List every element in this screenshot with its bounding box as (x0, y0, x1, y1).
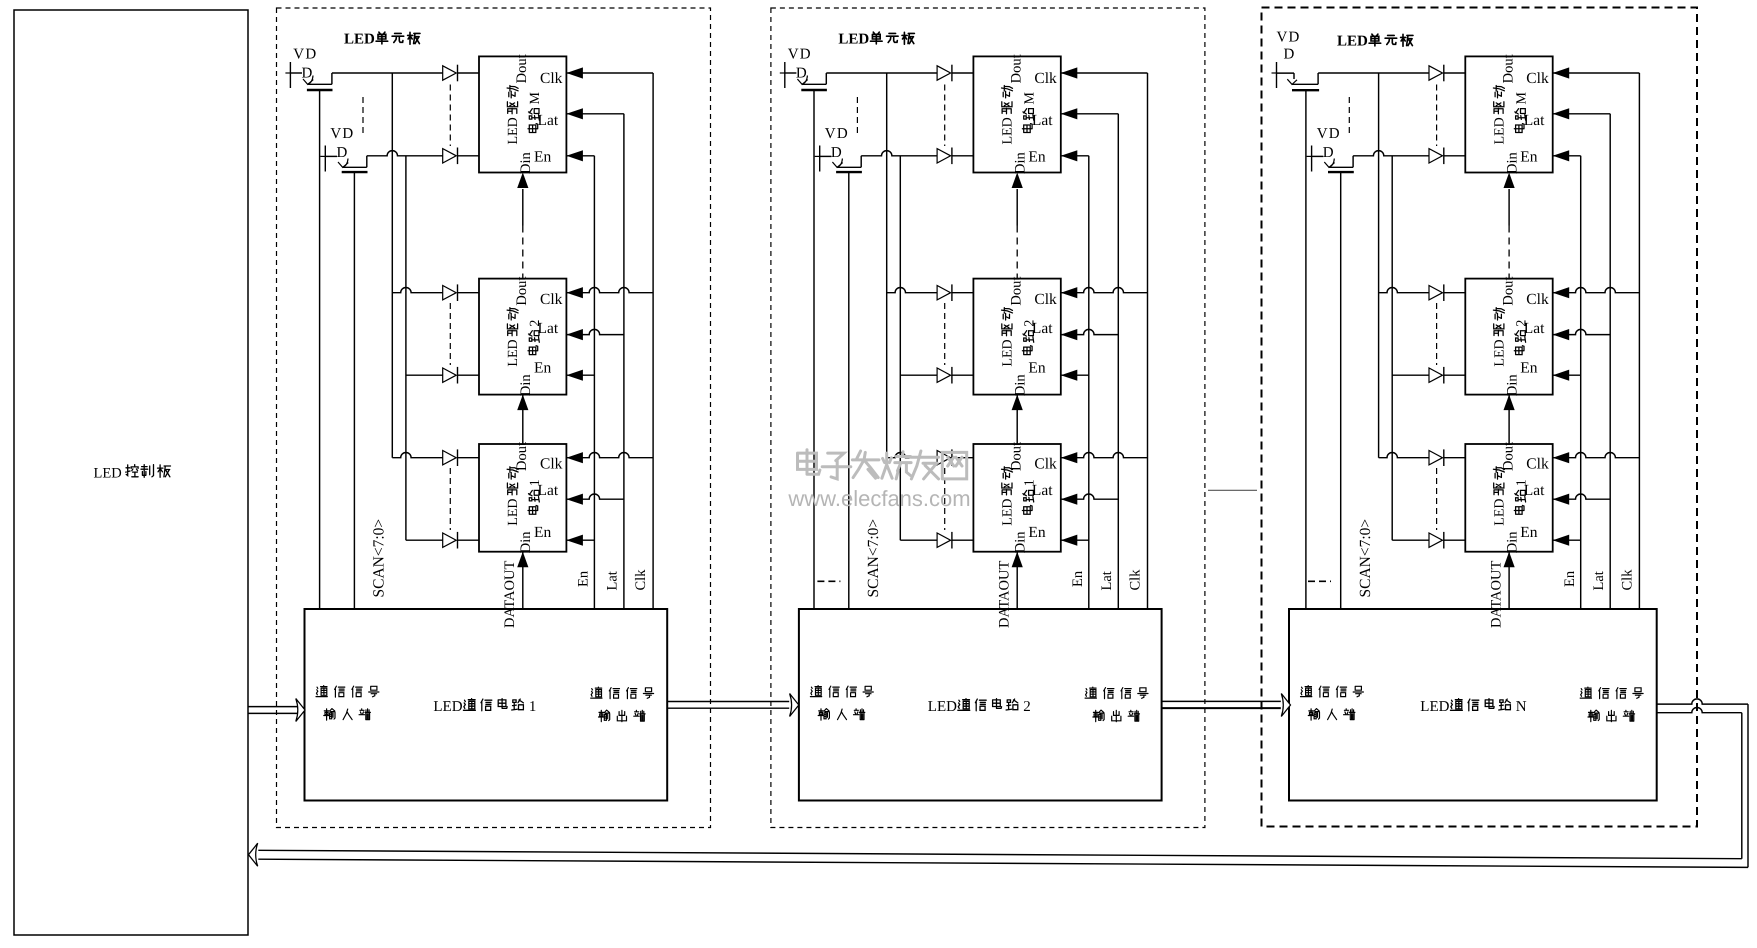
wire+arrow: Clk into UM (panel N) (1553, 72, 1640, 74)
svg-text:Lat: Lat (1524, 482, 1545, 499)
label 通信信号/输入端 (panel N) (1301, 686, 1364, 698)
wire+arrow: Clk into UM (panel 1) (566, 72, 653, 74)
svg-text:DATAOUT: DATAOUT (1488, 561, 1504, 628)
title LED单元板 (panel 2) (838, 32, 914, 48)
svg-text:LED: LED (1337, 34, 1368, 50)
svg-text:LED: LED (928, 699, 957, 715)
diode D4 (panel 2) (937, 368, 951, 382)
wire: En bus vertical (panel 2) (1088, 156, 1090, 609)
svg-text:En: En (1520, 360, 1537, 377)
wire: LED row 1 (Clk row of U-M) (panel N) (1318, 72, 1429, 74)
diode D4 (panel N) (1429, 368, 1443, 382)
svg-text:Din: Din (1012, 531, 1028, 554)
svg-text:LED: LED (94, 466, 122, 482)
wire+arrow: En into UM (panel N) (1553, 155, 1581, 157)
svg-text:LED: LED (1420, 699, 1449, 715)
svg-text:VD: VD (330, 126, 354, 142)
wire: LED row 3 (Clk row of U2) (panel 1) (392, 288, 442, 293)
label LED驱动 rotated (U1 panel 2) (1000, 467, 1015, 526)
diode D5 (panel 1) (443, 451, 457, 465)
svg-text:Lat: Lat (1032, 320, 1053, 337)
transistor Q1 (scan MOSFET VD, panel 1) (285, 47, 332, 90)
svg-text:Clk: Clk (1526, 70, 1549, 87)
diode D6 (panel 1) (443, 533, 457, 547)
svg-text:En: En (1520, 149, 1537, 166)
svg-text:En: En (534, 149, 551, 166)
svg-text:VD: VD (1277, 30, 1301, 46)
wire: diode to driver (panel 2) (952, 457, 974, 459)
svg-text:SCAN<7:0>: SCAN<7:0> (1357, 519, 1374, 598)
wire: LED row 3 (Clk row of U2) (panel N) (1379, 288, 1429, 293)
svg-text:En: En (1028, 524, 1045, 541)
diode D6 (panel N) (1429, 533, 1443, 547)
wire: diode to driver (panel 2) (952, 539, 974, 541)
wire: Q1 drain column down to comm circuit (panel 2) (813, 91, 815, 609)
title LED单元板 (panel 1) (344, 32, 420, 48)
LED unit board panel N dashed border (1262, 8, 1698, 827)
svg-text:VD: VD (293, 47, 317, 63)
svg-text:LED: LED (506, 498, 521, 525)
label LED通信电路2 (panel 2) (928, 699, 1031, 715)
wire+arrow: Lat into U2 (panel N) (1553, 329, 1611, 334)
wire: Clk bus vertical (panel 2) (1147, 73, 1149, 609)
diode D2 (panel N) (1429, 149, 1443, 163)
ellipsis line between panel 2 and panel N (1208, 489, 1257, 491)
wire: LED row 6 (En row of U1) (panel N) (1392, 539, 1429, 541)
wire+arrow: Lat into U2 (panel 2) (1061, 329, 1119, 334)
wire+arrow: DATAOUT from comm circuit up to U1 Din (panel 2) (1016, 552, 1018, 609)
svg-text:Din: Din (1012, 152, 1028, 175)
svg-text:En: En (1028, 360, 1045, 377)
wire: Q1 drain column down to comm circuit (panel N) (1305, 91, 1307, 609)
svg-text:Lat: Lat (538, 320, 559, 337)
wire+arrow: Clk into UM (panel 2) (1061, 72, 1148, 74)
transistor Q2 (scan MOSFET VD, panel 1) (320, 126, 367, 172)
wire: diode to driver (panel 1) (458, 292, 480, 294)
wire+arrow: Clk into U1 (panel N) (1553, 452, 1640, 457)
wire+arrow: En into UM (panel 1) (566, 155, 594, 157)
dashed mark between diode pair rows 5-6 (panel 1) (449, 468, 451, 530)
wire: return path bottom double line back to control board (258, 859, 1748, 867)
svg-text:Lat: Lat (1524, 320, 1545, 337)
wire: scan line B vertical (panel 1) (405, 156, 407, 540)
svg-text:LED: LED (1492, 498, 1507, 525)
wire: LED row 2 (En row of U-M) (panel N) (1353, 151, 1429, 156)
svg-text:Dout: Dout (514, 277, 530, 306)
svg-text:Lat: Lat (1099, 571, 1115, 590)
wire+arrow: Lat into U1 (panel 2) (1061, 494, 1119, 499)
LED control board box (LED控制板) (14, 10, 248, 935)
svg-text:Clk: Clk (1034, 70, 1057, 87)
wire: diode to driver (panel 1) (458, 374, 480, 376)
label 电路M rotated (UM panel 2) (1022, 92, 1037, 133)
svg-text:LED: LED (1000, 498, 1015, 525)
svg-text:Clk: Clk (633, 569, 649, 591)
svg-text:LED: LED (506, 339, 521, 366)
wire+arrow: En into U1 (panel 2) (1061, 539, 1089, 541)
wire: LED row 1 (Clk row of U-M) (panel 2) (826, 72, 937, 74)
wire: scan line A vertical (panel N) (1378, 73, 1380, 458)
svg-text:Din: Din (518, 531, 534, 554)
svg-text:Lat: Lat (538, 482, 559, 499)
svg-text:Clk: Clk (540, 70, 563, 87)
watermark 电子发烧友网 (798, 450, 967, 479)
svg-text:LED: LED (1492, 339, 1507, 366)
svg-text:D: D (831, 145, 842, 161)
wire: diode to driver (panel 2) (952, 292, 974, 294)
wire: diode to driver (panel N) (1444, 72, 1466, 74)
svg-text:1: 1 (529, 699, 537, 715)
svg-text:En: En (1028, 149, 1045, 166)
diode D2 (panel 1) (443, 149, 457, 163)
wire: comm circuit N output with hops over panel border (1657, 699, 1748, 704)
wire+arrow: Clk into U2 (panel N) (1553, 288, 1640, 293)
dashed mark between diode pair rows 5-6 (panel 2) (944, 468, 946, 530)
svg-text:Clk: Clk (1619, 569, 1635, 591)
label 电路1 rotated (U1 panel N) (1514, 479, 1529, 514)
svg-text:N: N (1516, 699, 1527, 715)
svg-text:En: En (576, 570, 592, 587)
wire: scan line A vertical (panel 2) (886, 73, 888, 458)
svg-text:Clk: Clk (1526, 291, 1549, 308)
wire: LED row 5 (Clk row of U1) (panel 2) (887, 452, 937, 457)
wire: scan line B vertical (panel N) (1391, 156, 1393, 540)
svg-text:Lat: Lat (1032, 482, 1053, 499)
svg-text:Lat: Lat (1524, 112, 1545, 129)
wire+arrow: Clk into U1 (panel 1) (566, 453, 653, 458)
svg-text:En: En (534, 360, 551, 377)
LED communication circuit N box (LED通信电路N) (1289, 609, 1657, 801)
diode D3 (panel 2) (937, 286, 951, 300)
svg-text:D: D (1284, 47, 1295, 63)
label LED控制板 (94, 465, 171, 482)
wire+arrow: DATAOUT from comm circuit up to U1 Din (panel 1) (522, 552, 524, 609)
wire: LED row 1 (Clk row of U-M) (panel 1) (332, 72, 443, 74)
label LED驱动 rotated (U1 panel N) (1492, 467, 1507, 526)
wire: Lat bus vertical (panel N) (1609, 114, 1611, 609)
wire: Q2 drain column down to comm circuit (panel 2) (848, 173, 850, 609)
label 电路2 rotated (U2 panel 2) (1022, 320, 1037, 355)
label 电路1 rotated (U1 panel 2) (1022, 479, 1037, 514)
svg-text:Clk: Clk (1034, 456, 1057, 473)
svg-text:Lat: Lat (605, 571, 621, 590)
wire+arrow (part dashed): U2 Dout up to UM Din (panel 1) (522, 189, 524, 226)
wire: LED row 3 (Clk row of U2) (panel 2) (887, 288, 937, 293)
dashed mark between diode pair rows 1-2 (panel N) (1436, 85, 1438, 147)
wire+arrow: Lat into U1 (panel 1) (566, 494, 624, 499)
svg-text:Din: Din (1012, 374, 1028, 397)
label LED驱动 rotated (U1 panel 1) (506, 467, 521, 526)
wire: En bus vertical (panel 1) (593, 156, 595, 609)
wire: Clk bus vertical (panel 1) (652, 73, 654, 609)
label LED驱动 rotated (U2 panel 1) (506, 308, 521, 367)
svg-text:LED: LED (1000, 117, 1015, 144)
transistor Q1 (scan MOSFET VD, panel 2) (780, 47, 827, 90)
label LED通信电路N (panel N) (1420, 699, 1527, 715)
svg-text:Dout: Dout (514, 54, 530, 83)
svg-text:LED: LED (433, 699, 462, 715)
wire: Q2 drain column down to comm circuit (panel 1) (353, 173, 355, 609)
diode D3 (panel N) (1429, 286, 1443, 300)
transistor Q1 (scan MOSFET VD, panel N) (1272, 30, 1320, 91)
wire+arrow: En into U2 (panel 1) (566, 374, 594, 376)
label 电路2 rotated (U2 panel 1) (528, 320, 543, 355)
svg-text:LED: LED (506, 117, 521, 144)
label 电路M rotated (UM panel 1) (528, 92, 543, 133)
wire+arrow (part dashed): U2 Dout up to UM Din (panel 2) (1016, 189, 1018, 226)
wire: LED row 4 (En row of U2) (panel 2) (900, 374, 937, 376)
svg-text:Clk: Clk (1127, 569, 1143, 591)
svg-text:LED: LED (1492, 117, 1507, 144)
hollow arrow into control board (return) (249, 843, 258, 866)
LED unit board panel 1 dashed border (277, 8, 711, 828)
label 通信信号/输入端 (panel 2) (810, 686, 873, 698)
wire+arrow: En into U2 (panel N) (1553, 374, 1581, 376)
svg-text:En: En (1070, 570, 1086, 587)
svg-text:LED: LED (1000, 339, 1015, 366)
wire+arrow: Lat into U1 (panel N) (1553, 494, 1611, 499)
svg-text:Dout: Dout (1500, 442, 1516, 471)
svg-text:M: M (528, 92, 543, 105)
LED driver circuit UM box (LED驱动电路M, panel 1) (479, 56, 566, 172)
dashed mark between diode pair rows 3-4 (panel 1) (449, 303, 451, 365)
diode D4 (panel 1) (443, 368, 457, 382)
wire: diode to driver (panel 1) (458, 72, 480, 74)
label LED驱动 rotated (U2 panel N) (1492, 308, 1507, 367)
wire+arrow: Lat into UM (panel N) (1553, 113, 1611, 115)
hollow arrow into comm circuit N input (1281, 694, 1290, 717)
wire+arrow: U1 Dout up to U2 Din (panel 2) (1016, 395, 1018, 444)
dashed mark between diode pair rows 5-6 (panel N) (1436, 468, 1438, 530)
wire+arrow: Lat into UM (panel 1) (566, 113, 624, 115)
svg-text:Lat: Lat (538, 112, 559, 129)
wire: LED row 2 (En row of U-M) (panel 1) (367, 151, 443, 156)
wire: LED row 6 (En row of U1) (panel 1) (406, 539, 443, 541)
label 电路2 rotated (U2 panel N) (1514, 320, 1529, 355)
svg-text:En: En (1562, 570, 1578, 587)
label LED通信电路1 (panel 1) (433, 699, 536, 715)
label 电路M rotated (UM panel N) (1514, 92, 1529, 133)
title LED单元板 (panel N) (1337, 34, 1413, 50)
svg-text:Lat: Lat (1591, 571, 1607, 590)
wire: LED row 5 (Clk row of U1) (panel N) (1379, 452, 1429, 457)
wire: diode to driver (panel N) (1444, 539, 1466, 541)
transistor Q2 (scan MOSFET VD, panel 2) (815, 126, 862, 172)
wire: control board to comm circuit 1 (double line) (248, 706, 298, 708)
wire: diode to driver (panel N) (1444, 292, 1466, 294)
wire+arrow: En into U1 (panel 1) (566, 539, 594, 541)
svg-text:LED: LED (344, 32, 375, 48)
svg-text:SCAN<7:0>: SCAN<7:0> (371, 519, 388, 598)
diode D3 (panel 1) (443, 286, 457, 300)
wire: diode to driver (panel N) (1444, 457, 1466, 459)
svg-text:LED: LED (838, 32, 869, 48)
wire: LED row 2 (En row of U-M) (panel 2) (861, 151, 937, 156)
wire+arrow: U1 Dout up to U2 Din (panel 1) (522, 395, 524, 444)
svg-text:Din: Din (1504, 531, 1520, 554)
wire+arrow: En into U1 (panel N) (1553, 539, 1581, 541)
LED driver circuit UM box (LED驱动电路M, panel 2) (973, 56, 1060, 172)
LED communication circuit 1 box (LED通信电路1) (305, 609, 668, 801)
label 电路1 rotated (U1 panel 1) (528, 479, 543, 514)
svg-text:Din: Din (1504, 152, 1520, 175)
label LED驱动 rotated (UM panel 2) (1000, 86, 1015, 145)
LED driver circuit U2 box (LED驱动电路2, panel 2) (973, 279, 1060, 395)
diode D6 (panel 2) (937, 533, 951, 547)
dashed mark between diode pair rows 1-2 (panel 1) (449, 85, 451, 147)
LED driver circuit U2 box (LED驱动电路2, panel N) (1465, 279, 1552, 395)
svg-text:Din: Din (518, 374, 534, 397)
dashed mark between diode pair rows 3-4 (panel 2) (944, 303, 946, 365)
svg-text:Dout: Dout (1500, 54, 1516, 83)
svg-text:Clk: Clk (540, 291, 563, 308)
label LED驱动 rotated (UM panel 1) (506, 86, 521, 145)
wire: diode to driver (panel N) (1444, 155, 1466, 157)
wire: LED row 6 (En row of U1) (panel 2) (900, 539, 937, 541)
wire: comm circuit 2 output to comm circuit N input (double line) (1162, 700, 1281, 702)
svg-text:Clk: Clk (1526, 456, 1549, 473)
hollow arrow into comm circuit 1 input (296, 699, 305, 722)
wire+arrow: DATAOUT from comm circuit up to U1 Din (panel N) (1508, 552, 1510, 609)
wire+arrow (part dashed): U2 Dout up to UM Din (panel N) (1508, 189, 1510, 226)
LED communication circuit 2 box (LED通信电路2) (799, 609, 1162, 801)
wire: Lat bus vertical (panel 2) (1117, 114, 1119, 609)
diode D2 (panel 2) (937, 149, 951, 163)
wire: Q2 drain column down to comm circuit (panel N) (1340, 173, 1342, 609)
svg-text:VD: VD (1317, 126, 1341, 142)
wire+arrow: Clk into U2 (panel 1) (566, 288, 653, 293)
dashed mark between diode pair rows 1-2 (panel 2) (944, 85, 946, 147)
wire+arrow: U1 Dout up to U2 Din (panel N) (1508, 395, 1510, 444)
svg-text:M: M (1022, 92, 1037, 105)
svg-text:Din: Din (1504, 374, 1520, 397)
wire+arrow: Clk into U1 (panel 2) (1061, 452, 1148, 457)
dashed continuation mark between Q1 and Q2 (panel N) (1348, 97, 1350, 133)
svg-text:DATAOUT: DATAOUT (996, 561, 1012, 628)
wire: diode to driver (panel 1) (458, 155, 480, 157)
wire: LED row 4 (En row of U2) (panel N) (1392, 374, 1429, 376)
label 通信信号/输出端 (panel 2) (1085, 687, 1148, 699)
wire: diode to driver (panel 1) (458, 539, 480, 541)
wire: scan line A vertical (panel 1) (391, 73, 393, 458)
wire: LED row 4 (En row of U2) (panel 1) (406, 374, 443, 376)
label LED驱动 rotated (U2 panel 2) (1000, 308, 1015, 367)
wire: scan line B vertical (panel 2) (899, 156, 901, 540)
LED unit board panel 2 dashed border (771, 8, 1205, 828)
wire+arrow: En into UM (panel 2) (1061, 155, 1089, 157)
LED driver circuit U1 box (LED驱动电路1, panel 2) (973, 444, 1060, 552)
wire: return path right verticals (1747, 704, 1749, 867)
wire+arrow: Lat into U2 (panel 1) (566, 329, 624, 334)
wire: diode to driver (panel 1) (458, 457, 480, 459)
svg-text:M: M (1514, 92, 1529, 105)
label LED驱动 rotated (UM panel N) (1492, 86, 1507, 145)
wire: comm circuit 1 output to comm circuit 2 input (double line) (667, 701, 789, 703)
svg-text:Dout: Dout (1008, 54, 1024, 83)
svg-text:En: En (534, 524, 551, 541)
svg-text:www.elecfans.com: www.elecfans.com (787, 486, 970, 511)
svg-text:SCAN<7:0>: SCAN<7:0> (865, 519, 882, 598)
wire+arrow: Clk into U2 (panel 2) (1061, 288, 1148, 293)
dashed mark between diode pair rows 3-4 (panel N) (1436, 303, 1438, 365)
LED driver circuit U2 box (LED驱动电路2, panel 1) (479, 279, 566, 395)
wire+arrow: En into U2 (panel 2) (1061, 374, 1089, 376)
svg-text:D: D (1323, 145, 1334, 161)
svg-text:Clk: Clk (540, 456, 563, 473)
svg-text:Dout: Dout (1500, 277, 1516, 306)
transistor Q2 (scan MOSFET VD, panel N) (1307, 126, 1354, 172)
wire: diode to driver (panel 2) (952, 374, 974, 376)
svg-text:D: D (337, 145, 348, 161)
svg-text:DATAOUT: DATAOUT (502, 561, 518, 628)
wire: Lat bus vertical (panel 1) (623, 114, 625, 609)
LED driver circuit U1 box (LED驱动电路1, panel N) (1465, 444, 1552, 552)
svg-text:Dout: Dout (1008, 277, 1024, 306)
diode D1 (panel 2) (937, 66, 951, 80)
label 通信信号/输入端 (panel 1) (316, 686, 379, 698)
svg-text:En: En (1520, 524, 1537, 541)
diode D5 (panel N) (1429, 451, 1443, 465)
svg-text:Dout: Dout (1008, 442, 1024, 471)
dashed continuation mark between Q1 and Q2 (panel 2) (856, 97, 858, 133)
wire: Q1 drain column down to comm circuit (panel 1) (319, 91, 321, 609)
LED driver circuit UM box (LED驱动电路M, panel N) (1465, 56, 1552, 172)
wire: LED row 5 (Clk row of U1) (panel 1) (392, 453, 442, 458)
svg-text:VD: VD (825, 126, 849, 142)
hollow arrow into comm circuit 2 input (790, 694, 799, 717)
wire: diode to driver (panel N) (1444, 374, 1466, 376)
diode D1 (panel N) (1429, 66, 1443, 80)
dashed continuation mark between Q1 and Q2 (panel 1) (362, 97, 364, 133)
svg-text:VD: VD (788, 47, 812, 63)
label 通信信号/输出端 (panel 1) (591, 687, 654, 699)
svg-text:Clk: Clk (1034, 291, 1057, 308)
diode D1 (panel 1) (443, 66, 457, 80)
wire: diode to driver (panel 2) (952, 155, 974, 157)
label 通信信号/输出端 (panel N) (1580, 687, 1643, 699)
svg-text:Din: Din (518, 152, 534, 175)
wire: diode to driver (panel 2) (952, 72, 974, 74)
dashed continuation mark near SCAN bus (panel N) (1308, 580, 1331, 582)
LED driver circuit U1 box (LED驱动电路1, panel 1) (479, 444, 566, 552)
svg-text:Lat: Lat (1032, 112, 1053, 129)
svg-text:Dout: Dout (514, 442, 530, 471)
wire+arrow: Lat into UM (panel 2) (1061, 113, 1119, 115)
wire: En bus vertical (panel N) (1580, 156, 1582, 609)
diode D5 (panel 2) (937, 451, 951, 465)
dashed continuation mark near SCAN bus (panel 2) (817, 580, 840, 582)
wire: Clk bus vertical (panel N) (1638, 73, 1640, 609)
svg-text:2: 2 (1023, 699, 1030, 715)
